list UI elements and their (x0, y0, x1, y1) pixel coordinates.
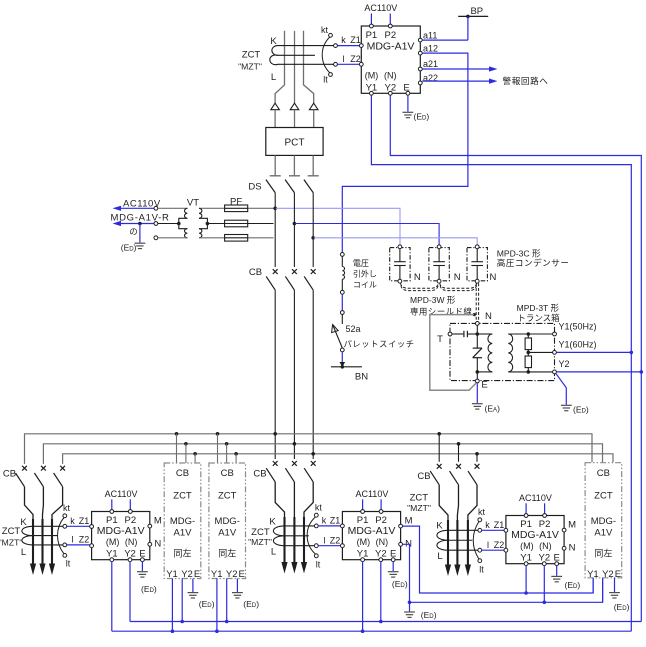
terminal Y1-50Hz (553, 332, 557, 336)
svg-text:K: K (20, 517, 27, 528)
label E U1 (403, 82, 409, 93)
breaker CB feeder3 (468, 464, 479, 485)
svg-text:CB: CB (417, 471, 430, 482)
svg-text:同左: 同左 (218, 548, 236, 559)
pin E U1 (406, 91, 410, 95)
wire secondary bottom to Y2 (528, 371, 552, 373)
label l U1 (343, 54, 345, 64)
label MZT feeder2 (248, 537, 272, 547)
label P2 U4 (539, 519, 551, 530)
wire feeder2 B jog (293, 482, 295, 565)
label a11 U1 (423, 30, 437, 40)
junction T line (476, 332, 480, 336)
label N C2 (454, 272, 461, 283)
label ZCT main (242, 50, 261, 61)
svg-text:P2: P2 (384, 30, 396, 41)
wire N ground stub (409, 602, 411, 611)
svg-text:(ED): (ED) (141, 584, 157, 594)
pin a11 U1 (418, 38, 422, 42)
terminal VT sec 3 (154, 236, 158, 240)
label (ED) box1 (199, 599, 215, 609)
svg-text:k: k (70, 516, 75, 526)
junction Y2 box1 (180, 620, 184, 624)
breaker CB feeder3 (430, 464, 441, 485)
pin Z1 U1 (359, 44, 363, 48)
junction Y2 U3 (379, 620, 383, 624)
wire N to arrester (476, 325, 478, 348)
wire E U4 ground (556, 566, 558, 576)
wire phase1 to C1 (275, 208, 400, 244)
unit box box3 (585, 463, 622, 578)
junction bus A (216, 432, 220, 436)
svg-text:PCT: PCT (285, 137, 305, 148)
pin Z2 U4 (504, 548, 508, 552)
wire feeder3 C jog (468, 485, 477, 568)
svg-text:a11: a11 (423, 30, 437, 40)
svg-text:ZCT: ZCT (594, 491, 613, 502)
label Y1Y2E3 box2 (239, 569, 245, 580)
svg-text:(M): (M) (106, 537, 120, 547)
svg-text:Z2: Z2 (494, 540, 505, 550)
svg-text:M: M (154, 516, 162, 527)
fuse PF1 (225, 205, 248, 212)
pin Eb U3 (391, 558, 395, 562)
load arrow feeder1 B (39, 564, 45, 576)
junction bus A (175, 432, 179, 436)
wire feeder3 B jog (457, 485, 458, 568)
trip coil (342, 256, 344, 290)
svg-text:コイル: コイル (353, 281, 377, 290)
svg-text:AC110V: AC110V (364, 3, 397, 13)
label (ED) U3 (392, 579, 408, 589)
label MPD-3T line2 (517, 313, 560, 323)
cable head arrow phase B (290, 103, 299, 127)
label Z1 U1 (350, 35, 361, 45)
label MDG box1 (170, 516, 195, 527)
junction Y2 riser (640, 370, 644, 374)
svg-text:MPD-3W 形: MPD-3W 形 (410, 295, 456, 305)
label (ED) U4 (565, 580, 581, 590)
label MPD-3W (410, 295, 456, 305)
wire Y1 bottom bus (112, 630, 632, 632)
wire VT to fuse PF3 (248, 237, 274, 239)
wire P2 supply U3 (380, 499, 382, 509)
wire P1 supply U1 (370, 14, 372, 25)
wire VT to fuse PF2 (248, 223, 274, 225)
label P1 U1 (366, 30, 378, 41)
BP bar (458, 15, 488, 17)
label Y1(60Hz) (559, 340, 597, 350)
svg-text:(N): (N) (376, 537, 389, 547)
label title U4 (511, 529, 559, 541)
label CB feeder1 (3, 468, 16, 479)
wire Y1 box3 (592, 578, 594, 593)
label (N) U1 (384, 70, 397, 80)
svg-text:MDG-: MDG- (591, 516, 616, 527)
terminal k main (334, 44, 338, 48)
svg-text:kt: kt (315, 503, 323, 513)
terminal C2 top (437, 245, 441, 249)
pin Eb U2 (141, 558, 145, 562)
relay U1 MDG-A1V box (361, 26, 420, 93)
load arrow feeder1 A (30, 564, 36, 576)
ground (ED) box3 (609, 593, 620, 598)
label Z2 G3 (494, 540, 505, 550)
label MZT main (238, 62, 262, 72)
terminal Y1-60Hz (553, 351, 557, 355)
wire Y2 U3 to bus (380, 562, 382, 622)
label K main ZCT (270, 36, 277, 47)
svg-text:Z2: Z2 (330, 535, 341, 545)
pin Z1 U2 (90, 525, 94, 529)
wire phase2 to C2 (294, 224, 439, 245)
terminal C2 bottom (437, 279, 441, 283)
junction BN (340, 362, 346, 369)
svg-text:BN: BN (355, 371, 368, 382)
svg-text:N: N (485, 311, 492, 322)
wire Y1 box2 (216, 579, 218, 632)
breaker CB feeder2 (266, 461, 277, 482)
label E U2 (139, 549, 145, 560)
wire k to Z1 U1 (337, 45, 359, 47)
label a21 U1 (423, 59, 438, 69)
svg-text:Y1: Y1 (211, 569, 223, 580)
label ZCT box1 (173, 491, 192, 502)
label K feeder1 (20, 517, 27, 528)
terminal kt main (329, 33, 333, 37)
label MPD-3T (517, 303, 560, 313)
junction bus B (293, 442, 297, 446)
svg-text:k: k (322, 516, 327, 526)
svg-text:MDG-A1V: MDG-A1V (97, 525, 145, 537)
terminal E MPD-3T (475, 379, 479, 383)
breaker CB feeder1 (34, 466, 45, 487)
terminal VT sec 2 (154, 222, 158, 226)
ground (ED) box1 (188, 593, 199, 598)
label (M) U1 (365, 70, 379, 80)
label 52a (346, 324, 361, 334)
label (M) U3 (357, 537, 371, 547)
svg-text:(ED): (ED) (614, 602, 630, 612)
junction Y1-60 tap (527, 351, 531, 355)
label A1V box1 (174, 528, 193, 539)
junction phase3 PF (311, 236, 315, 240)
capacitor unit box C1 (390, 248, 410, 281)
wire feeder3 A jog (439, 485, 448, 568)
capacitor C3 (471, 249, 483, 280)
wire AC110V out phase1 (113, 206, 155, 211)
svg-text:VT: VT (187, 198, 199, 209)
pin Y1b U4 (524, 562, 528, 566)
label title U3 (348, 525, 396, 537)
label Y1Y2E box3 (587, 569, 599, 580)
terminal N MPD-3T (475, 322, 479, 326)
load arrow feeder1 C (49, 564, 55, 576)
svg-text:(ED): (ED) (414, 112, 430, 122)
ground (ED) U3 (388, 572, 399, 577)
disconnector DS phase B (285, 176, 300, 267)
label (N) U3 (376, 537, 389, 547)
label Z1 G2 (330, 516, 341, 526)
svg-text:L: L (271, 546, 276, 557)
label l G3 (487, 540, 489, 550)
label k G1 (70, 516, 75, 526)
label trip coil line1 (353, 259, 369, 268)
svg-text:lt: lt (316, 560, 321, 570)
breaker CB main phase C (304, 269, 315, 290)
wire l to Z2 U1 (337, 63, 359, 65)
ZCT MZT main coil (270, 46, 334, 65)
svg-text:(N): (N) (539, 541, 552, 551)
svg-text:(ED): (ED) (421, 610, 437, 620)
svg-text:(N): (N) (384, 70, 397, 80)
svg-text:A1V: A1V (218, 528, 237, 539)
wire E to ground EA (476, 383, 478, 403)
ZCT feeder2 coil (273, 526, 314, 546)
svg-text:L: L (437, 551, 442, 562)
pin P2 U4 (543, 514, 547, 518)
svg-text:ZCT: ZCT (2, 526, 21, 537)
label PCT (285, 137, 305, 148)
label ZCT box3 (594, 491, 613, 502)
svg-text:Z1: Z1 (494, 520, 505, 530)
breaker CB main phase B (285, 269, 296, 290)
terminal lt main (329, 73, 333, 77)
label Y2 MPD-3T (559, 359, 570, 369)
svg-text:A1V: A1V (174, 528, 193, 539)
svg-text:Y2: Y2 (226, 569, 238, 580)
load arrow feeder2 A (281, 562, 287, 574)
svg-text:Y1(60Hz): Y1(60Hz) (559, 340, 597, 350)
wire E box2 (236, 579, 238, 593)
wire PCT to DS phase B (293, 155, 295, 175)
svg-text:l: l (324, 535, 326, 545)
label same-as-left box3 (594, 548, 612, 559)
load arrow feeder3 B (454, 565, 460, 577)
svg-text:MDG-: MDG- (215, 516, 240, 527)
junction Y1 box2 (215, 629, 219, 633)
svg-text:MPD-3C 形: MPD-3C 形 (497, 249, 541, 259)
wire N U3 run (403, 544, 603, 602)
svg-text:(ED): (ED) (121, 243, 137, 253)
wire arrester to E (476, 358, 478, 380)
svg-text:Z2: Z2 (79, 535, 90, 545)
label Y1Y2E2 box2 (226, 569, 238, 580)
svg-text:AC110V: AC110V (105, 489, 138, 499)
label CB box3 (597, 468, 610, 479)
ZCT feeder3 terminals (473, 518, 481, 563)
svg-text:CB: CB (176, 468, 189, 479)
svg-text:a21: a21 (423, 59, 438, 69)
label lt main (323, 75, 328, 85)
ZCT feeder1 terminals (58, 514, 67, 557)
svg-text:E: E (481, 380, 487, 391)
svg-text:Y2: Y2 (559, 359, 570, 369)
transformer box MPD-3T (450, 323, 555, 380)
wire Y1 U1 right riser (371, 95, 631, 631)
svg-text:M: M (405, 516, 413, 527)
wire E U2 ground (141, 562, 143, 571)
label CB box2 (221, 468, 234, 479)
label k G3 (485, 520, 490, 530)
wire 52a to BN (341, 352, 343, 367)
svg-text:BP: BP (470, 6, 483, 17)
pin P2 U2 (128, 510, 132, 514)
svg-text:Z1: Z1 (330, 516, 341, 526)
wire VT sec center tap (158, 222, 181, 226)
svg-text:N: N (569, 542, 576, 553)
junction Y2 U4 (543, 601, 547, 605)
pin Z2 U2 (90, 544, 94, 548)
label a22 U1 (423, 73, 438, 83)
svg-text:(N): (N) (125, 537, 138, 547)
label MDG box2 (215, 516, 240, 527)
svg-text:Y2: Y2 (181, 569, 193, 580)
wire Y1 U3 to bus (362, 562, 364, 632)
junction Y1 box1 (171, 629, 175, 633)
resistor R1 (525, 334, 531, 352)
junction bus B (184, 442, 188, 446)
junction Y1 U4 (524, 591, 528, 595)
wire P2 supply U2 (129, 499, 131, 509)
label N U2 (154, 538, 161, 549)
label alarm circuit (503, 75, 549, 86)
label AC110V feed (123, 198, 161, 209)
label Y1 U3 (357, 549, 369, 560)
wire tap box2 (226, 444, 228, 463)
label P2 U2 (124, 515, 136, 526)
svg-text:"MZT": "MZT" (248, 537, 272, 547)
wire P1 supply U4 (525, 503, 527, 513)
breaker CB feeder2 (285, 461, 296, 482)
label MPD-3C line2 (497, 257, 570, 268)
svg-text:N: N (154, 538, 161, 549)
wire l to Z2 G3 (482, 549, 504, 551)
wire Y2 U1 right riser (390, 95, 641, 621)
label ZCT feeder1 (2, 526, 21, 537)
label kt feeder2 (315, 503, 323, 513)
label AC110V U4 (519, 493, 552, 503)
label L feeder2 (271, 546, 276, 557)
svg-text:N: N (414, 272, 421, 283)
wire tap box2 (235, 454, 237, 463)
label K feeder2 (269, 516, 276, 527)
svg-text:(M): (M) (357, 537, 371, 547)
svg-text:"MZT": "MZT" (238, 62, 262, 72)
wire AC110V out phase2 (113, 221, 155, 226)
junction Y2 box2 (225, 620, 229, 624)
pin Y2b U2 (128, 558, 132, 562)
wire trip coil to 52a (341, 294, 343, 310)
shield wire C1-C2 (401, 283, 439, 290)
svg-text:(ED): (ED) (243, 599, 259, 609)
pin M U3 (399, 524, 403, 528)
svg-text:同左: 同左 (594, 548, 612, 559)
svg-text:MDG-: MDG- (170, 516, 195, 527)
capacitor C1 (394, 249, 406, 280)
label P1 U2 (106, 515, 118, 526)
wire P1 supply U3 (362, 499, 364, 509)
wire Y1 U2 to bus (111, 562, 113, 632)
breaker CB feeder3 (450, 464, 461, 485)
label lt feeder1 (66, 559, 71, 569)
wire Y2 box1 (181, 579, 183, 622)
label MPD-3W line2 (410, 307, 472, 317)
label A1V box2 (218, 528, 237, 539)
svg-text:Y1: Y1 (166, 569, 178, 580)
ZCT feeder1 coil (22, 526, 63, 545)
shield drain wire (430, 315, 476, 391)
junction BP (466, 15, 470, 19)
svg-text:Z1: Z1 (350, 35, 361, 45)
svg-text:l: l (343, 54, 345, 64)
wire VT pri center tap (206, 222, 225, 226)
pin Y2 U1 (388, 91, 392, 95)
ZCT feeder3 coil (437, 530, 478, 550)
wire Y2 U2 to bus (129, 562, 131, 622)
pin N U2 (148, 542, 152, 546)
wire P1 supply U2 (111, 499, 113, 509)
ZCT main test winding arc (322, 37, 330, 73)
svg-text:引外し: 引外し (353, 269, 377, 279)
junction phase1 PF (273, 207, 277, 211)
pin M U4 (562, 528, 566, 532)
wire tap feeder3 C (476, 454, 478, 462)
svg-text:CB: CB (253, 468, 266, 479)
wire feeder1 A jog (25, 487, 34, 567)
svg-text:CB: CB (249, 267, 262, 278)
label ZCT feeder3 (410, 492, 429, 503)
wire tap box1 (176, 434, 178, 463)
svg-text:MDG-A1V: MDG-A1V (348, 525, 396, 537)
svg-text:M: M (568, 520, 576, 531)
wire feeder2 A jog (275, 482, 284, 565)
capacitor unit box C2 (429, 248, 449, 281)
breaker CB main phase A (266, 269, 277, 290)
label Y2 U1 (384, 82, 396, 93)
terminal C1 bottom (398, 279, 402, 283)
terminal 52a top (340, 311, 344, 315)
wire tap feeder3 B (458, 444, 460, 462)
label trip coil line2 (353, 269, 377, 279)
svg-text:トランス箱: トランス箱 (517, 313, 560, 323)
ZCT feeder2 terminals (307, 513, 318, 557)
label N C1 (414, 272, 421, 283)
wire CB main to bus phase C (312, 290, 314, 459)
breaker CB feeder1 (54, 466, 65, 487)
arrester Z (473, 348, 482, 358)
wire k to Z1 G2 (318, 525, 340, 527)
label (ED) VT (121, 243, 137, 253)
svg-text:E: E (615, 569, 621, 580)
junction Y1 U3 (361, 629, 365, 633)
junction phase2 PF (293, 222, 297, 226)
wire PCT to DS phase A (274, 155, 276, 175)
wire k to Z1 G3 (482, 529, 504, 531)
label Z2 G1 (79, 535, 90, 545)
label pallet switch (344, 339, 415, 349)
wire Y2 box3 (602, 578, 604, 603)
svg-text:(ED): (ED) (565, 580, 581, 590)
load arrow feeder2 B (291, 562, 297, 574)
label Y1Y2E box2 (211, 569, 223, 580)
wire tap feeder3 A (438, 434, 440, 462)
pin Z2 U1 (359, 62, 363, 66)
ground (ED) VT (135, 243, 146, 248)
svg-text:ZCT: ZCT (218, 491, 237, 502)
label ZCT feeder2 (251, 527, 270, 538)
junction bus A (437, 432, 441, 436)
